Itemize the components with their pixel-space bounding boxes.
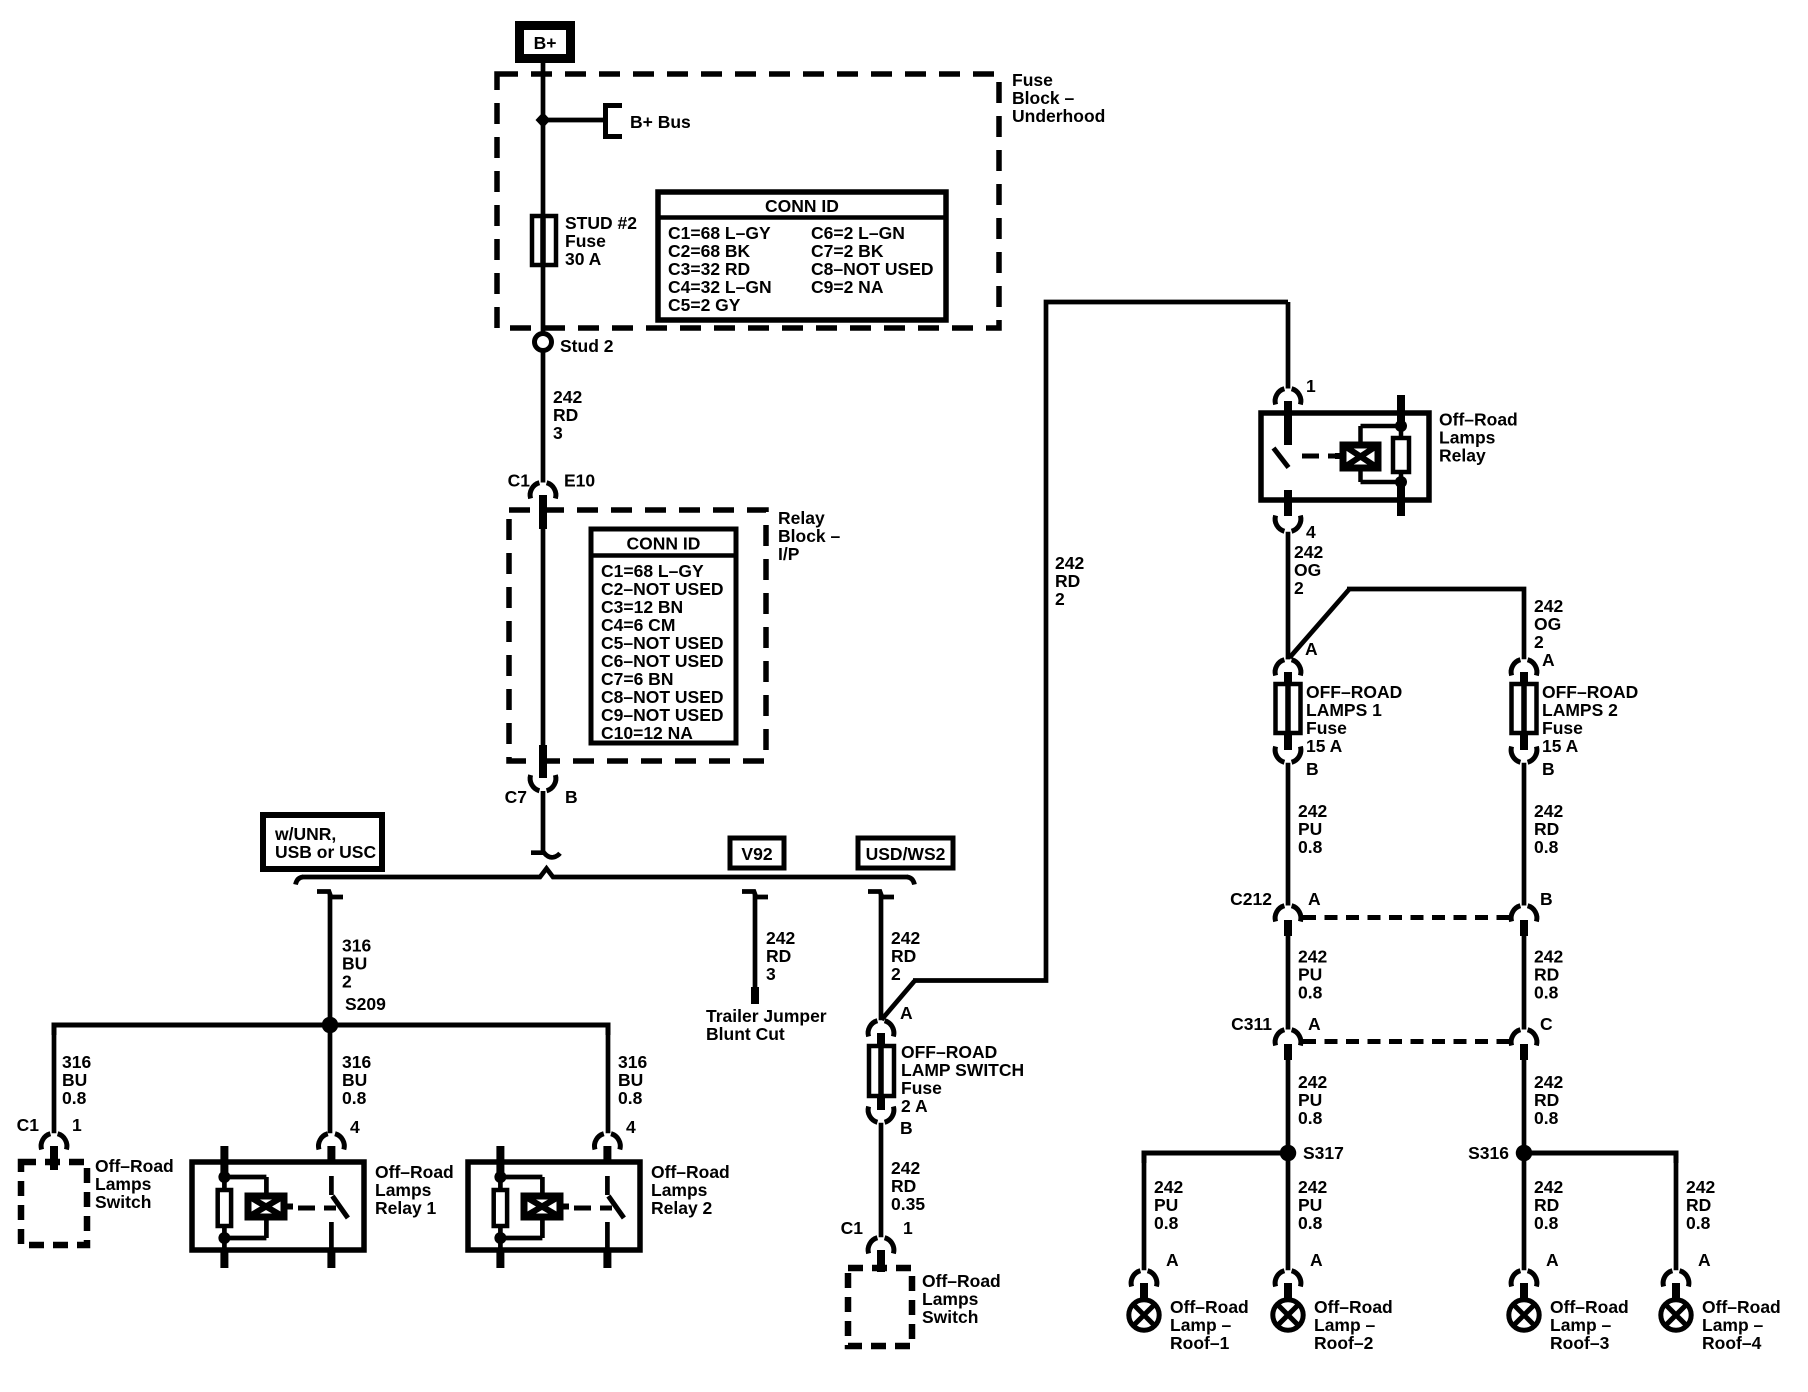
wire branch to lamps 2 fuse [1290,589,1564,659]
svg-text:C1: C1 [508,471,531,491]
svg-text:C1=68 L–GY: C1=68 L–GY [668,223,771,243]
svg-text:RD: RD [891,946,916,966]
connector B (lamp switch fuse) [868,1096,913,1138]
wire 242 RD 0.8 to lamp roof-3 [1524,1153,1563,1270]
svg-text:LAMPS 2: LAMPS 2 [1542,700,1618,720]
svg-text:Roof–1: Roof–1 [1170,1333,1230,1353]
wire 242 PU 0.8 (C311 to S317) [1288,1059,1327,1153]
svg-text:15 A: 15 A [1306,736,1343,756]
wire 242 RD 3 trailer jumper [742,892,795,989]
svg-text:15 A: 15 A [1542,736,1579,756]
connector C212 A-B [1230,889,1552,936]
svg-text:3: 3 [766,964,776,984]
svg-text:CONN ID: CONN ID [765,196,839,216]
connector C311 A-C [1231,1014,1553,1060]
svg-text:242: 242 [1534,596,1563,616]
svg-text:Lamps: Lamps [1439,428,1496,448]
svg-text:C311: C311 [1231,1014,1272,1034]
svg-text:BU: BU [618,1070,643,1090]
wire 316 BU 0.8 (middle to relay 1) [330,1025,371,1133]
wire 242 RD 3 (stud2 to C1/E10) [543,350,582,483]
svg-text:C3=32 RD: C3=32 RD [668,259,750,279]
svg-text:242: 242 [891,1158,920,1178]
svg-text:Lamps: Lamps [95,1174,152,1194]
svg-text:C7=2 BK: C7=2 BK [811,241,884,261]
svg-text:A: A [1166,1250,1179,1270]
svg-text:V92: V92 [741,844,772,864]
svg-text:4: 4 [1306,522,1316,542]
wire 242 RD 0.8 (C311 to S316) [1524,1059,1563,1153]
svg-text:C2=68 BK: C2=68 BK [668,241,751,261]
svg-text:C1: C1 [17,1115,40,1135]
svg-text:S209: S209 [345,994,386,1014]
svg-text:C9–NOT USED: C9–NOT USED [601,705,724,725]
svg-text:C5–NOT USED: C5–NOT USED [601,633,724,653]
connector A (off-road lamp roof-4) [1663,1250,1711,1287]
svg-text:LAMPS 1: LAMPS 1 [1306,700,1382,720]
svg-text:242: 242 [553,387,582,407]
svg-text:0.8: 0.8 [1154,1213,1179,1233]
option tag w/UNR USB or USC [263,815,382,869]
wire 316 BU 0.8 (right to relay 2) [608,1025,647,1133]
wire 242 PU 0.8 to lamp roof-1 [1144,1153,1183,1270]
conn id table (relay block I/P) [591,529,736,743]
connector A (lamps 2 fuse) [1511,650,1555,684]
svg-text:A: A [1308,1014,1321,1034]
connector pin 4 relay 2 [595,1117,636,1176]
svg-text:B: B [1542,759,1555,779]
svg-text:242: 242 [1298,947,1327,967]
svg-text:Lamp –: Lamp – [1550,1315,1612,1335]
svg-text:C2–NOT USED: C2–NOT USED [601,579,724,599]
svg-text:316: 316 [618,1052,647,1072]
svg-text:1: 1 [72,1115,82,1135]
svg-text:USB or USC: USB or USC [275,842,376,862]
wire 242 RD 2 feed from relay (long run) [882,302,1289,1020]
wire 316 BU 0.8 (left to lamps switch) [54,1025,91,1133]
wire 316 BU 2 (bus to S209) [317,892,371,1026]
svg-text:PU: PU [1154,1195,1178,1215]
svg-text:C4=32 L–GN: C4=32 L–GN [668,277,772,297]
wire B+ feed [541,63,546,216]
lamp: off-road lamp roof-3 [1509,1283,1629,1353]
svg-text:A: A [1310,1250,1323,1270]
svg-text:PU: PU [1298,819,1322,839]
connector C1 E10 [508,471,596,530]
connector pin 4 (off-road lamps relay) [1275,500,1316,542]
node S209 splice [54,994,608,1035]
svg-text:Relay: Relay [1439,446,1486,466]
connector C7 B [505,745,578,807]
svg-text:Fuse: Fuse [1012,70,1053,90]
connector A (off-road lamp roof-2) [1275,1250,1323,1287]
svg-text:RD: RD [1534,965,1559,985]
wire 242 PU 0.8 (C212 to C311) [1288,936,1327,1030]
svg-text:Fuse: Fuse [901,1078,942,1098]
svg-text:Off–Road: Off–Road [1314,1297,1393,1317]
svg-text:2: 2 [1055,589,1065,609]
svg-text:Off–Road: Off–Road [1439,410,1518,430]
svg-text:PU: PU [1298,965,1322,985]
svg-text:Lamps: Lamps [375,1180,432,1200]
relay block I/P enclosure (dashed) [509,508,841,761]
svg-text:242: 242 [1055,553,1084,573]
wire 242 RD 0.8 (fuse2 to C212) [1524,763,1563,906]
svg-text:C1: C1 [841,1218,864,1238]
option tag USD/WS2 [858,838,953,868]
svg-text:C1=68 L–GY: C1=68 L–GY [601,561,704,581]
svg-text:E10: E10 [564,471,595,491]
svg-text:B: B [1540,889,1553,909]
svg-text:4: 4 [626,1117,636,1137]
svg-text:RD: RD [891,1176,916,1196]
connector B (lamps 2 fuse) [1511,733,1555,779]
connector pin 1 (off-road lamps relay) [1275,376,1316,413]
svg-text:1: 1 [1306,376,1316,396]
svg-text:0.8: 0.8 [1534,837,1559,857]
svg-text:Off–Road: Off–Road [375,1162,454,1182]
connector A (off-road lamp roof-3) [1511,1250,1559,1287]
svg-text:A: A [900,1003,913,1023]
node B+ bus tap [536,103,692,139]
svg-text:0.8: 0.8 [1534,983,1559,1003]
svg-text:STUD #2: STUD #2 [565,213,637,233]
lamp: off-road lamp roof-2 [1273,1283,1393,1353]
off-road lamps switch (dashed outline) [21,1156,174,1245]
lamp: off-road lamp roof-1 [1129,1283,1249,1353]
svg-text:C5=2 GY: C5=2 GY [668,295,741,315]
wire inside relay block [541,529,546,748]
svg-text:RD: RD [553,405,578,425]
wire fuse to stud 2 [541,265,546,334]
svg-text:242: 242 [1298,801,1327,821]
svg-text:Fuse: Fuse [565,231,606,251]
svg-text:Off–Road: Off–Road [922,1271,1001,1291]
svg-text:RD: RD [1534,819,1559,839]
wire 242 PU 0.8 (fuse1 to C212) [1288,763,1327,906]
option tag V92 [730,838,784,868]
svg-text:A: A [1698,1250,1711,1270]
connector pin 4 relay 1 [319,1117,360,1176]
svg-text:0.8: 0.8 [62,1088,87,1108]
svg-text:PU: PU [1298,1090,1322,1110]
svg-text:OG: OG [1294,560,1321,580]
svg-text:0.8: 0.8 [1534,1213,1559,1233]
svg-text:0.35: 0.35 [891,1194,925,1214]
svg-text:B+ Bus: B+ Bus [630,112,691,132]
svg-text:CONN ID: CONN ID [627,534,701,554]
svg-text:0.8: 0.8 [1298,1213,1323,1233]
svg-text:Roof–4: Roof–4 [1702,1333,1762,1353]
svg-text:Relay 1: Relay 1 [375,1198,437,1218]
svg-text:LAMP SWITCH: LAMP SWITCH [901,1060,1024,1080]
svg-text:B: B [1306,759,1319,779]
svg-text:B: B [565,787,578,807]
relay: off-road lamps relay 1 [192,1146,454,1268]
wire 242 PU 0.8 to lamp roof-2 [1288,1153,1327,1270]
svg-text:PU: PU [1298,1195,1322,1215]
svg-text:242: 242 [1534,1072,1563,1092]
svg-text:242: 242 [1534,1177,1563,1197]
svg-text:2 A: 2 A [901,1096,928,1116]
svg-text:I/P: I/P [778,544,800,564]
svg-text:B+: B+ [534,33,557,53]
wire 242 RD 0.8 to lamp roof-4 [1676,1153,1715,1270]
svg-text:Lamp –: Lamp – [1702,1315,1764,1335]
trailer jumper blunt cut [706,987,827,1044]
wire 242 OG 2 (relay to fuses) [1288,532,1323,660]
svg-text:Lamp –: Lamp – [1170,1315,1232,1335]
svg-text:242: 242 [1686,1177,1715,1197]
svg-text:B: B [900,1118,913,1138]
connector A (lamps 1 fuse) [1275,639,1318,684]
svg-text:OFF–ROAD: OFF–ROAD [1306,682,1402,702]
connector C1 pin 1 (lamps switch bottom) [841,1218,913,1272]
svg-text:0.8: 0.8 [618,1088,643,1108]
svg-text:Blunt Cut: Blunt Cut [706,1024,785,1044]
svg-text:A: A [1308,889,1321,909]
wire 242 RD 0.8 (C212 to C311) [1524,936,1563,1030]
svg-text:C4=6 CM: C4=6 CM [601,615,675,635]
svg-text:Off–Road: Off–Road [1170,1297,1249,1317]
svg-text:30 A: 30 A [565,249,602,269]
svg-text:S317: S317 [1303,1143,1344,1163]
svg-text:2: 2 [1294,578,1304,598]
fuse block underhood enclosure (dashed) [497,70,1105,328]
svg-text:w/UNR,: w/UNR, [274,824,336,844]
svg-text:0.8: 0.8 [1686,1213,1711,1233]
wire 242 RD 2 (bus to lamp switch fuse) [868,892,920,1021]
fuse STUD #2 30A [532,213,637,269]
svg-text:Relay: Relay [778,508,825,528]
svg-text:242: 242 [766,928,795,948]
svg-text:Switch: Switch [95,1192,151,1212]
connector C1 pin 1 (lamps switch) [17,1115,82,1170]
svg-text:Lamp –: Lamp – [1314,1315,1376,1335]
svg-text:3: 3 [553,423,563,443]
svg-text:0.8: 0.8 [1298,983,1323,1003]
svg-text:OFF–ROAD: OFF–ROAD [901,1042,997,1062]
svg-text:316: 316 [342,1052,371,1072]
svg-text:Block –: Block – [778,526,841,546]
conn id table (fuse block underhood) [658,192,946,320]
svg-text:2: 2 [342,972,352,992]
node S316 splice [1468,1143,1676,1163]
svg-text:0.8: 0.8 [1534,1108,1559,1128]
svg-text:0.8: 0.8 [342,1088,367,1108]
svg-text:Roof–2: Roof–2 [1314,1333,1374,1353]
svg-text:Fuse: Fuse [1542,718,1583,738]
svg-text:Off–Road: Off–Road [1550,1297,1629,1317]
svg-text:A: A [1305,639,1318,659]
option bus bar [296,869,915,885]
wire 242 RD 0.35 [881,1123,925,1237]
svg-text:USD/WS2: USD/WS2 [866,844,946,864]
svg-text:BU: BU [342,954,367,974]
svg-text:242: 242 [1298,1072,1327,1092]
svg-text:242: 242 [1154,1177,1183,1197]
svg-text:C7=6 BN: C7=6 BN [601,669,673,689]
svg-text:Relay 2: Relay 2 [651,1198,713,1218]
svg-text:2: 2 [1534,632,1544,652]
svg-text:C212: C212 [1230,889,1272,909]
svg-text:Block –: Block – [1012,88,1075,108]
svg-text:C6–NOT USED: C6–NOT USED [601,651,724,671]
off-road lamps switch bottom (dashed outline) [848,1268,1001,1346]
svg-text:Roof–3: Roof–3 [1550,1333,1610,1353]
wire to relay pin 1 [1286,302,1291,389]
relay: off-road lamps relay 2 [468,1146,730,1268]
svg-text:C10=12 NA: C10=12 NA [601,723,693,743]
connector B (lamps 1 fuse) [1275,733,1319,779]
lamp: off-road lamp roof-4 [1661,1283,1781,1353]
svg-text:RD: RD [1534,1090,1559,1110]
terminal Stud 2 [535,334,614,357]
svg-text:C: C [1540,1014,1553,1034]
svg-text:RD: RD [1055,571,1080,591]
svg-text:RD: RD [1686,1195,1711,1215]
connector A (off-road lamp roof-1) [1131,1250,1179,1287]
svg-text:242: 242 [1534,947,1563,967]
svg-text:C3=12 BN: C3=12 BN [601,597,683,617]
svg-text:0.8: 0.8 [1298,1108,1323,1128]
svg-text:4: 4 [350,1117,360,1137]
svg-text:S316: S316 [1468,1143,1509,1163]
connector A (lamp switch fuse) [868,1003,913,1046]
svg-text:242: 242 [1298,1177,1327,1197]
svg-text:Switch: Switch [922,1307,978,1327]
svg-text:242: 242 [1294,542,1323,562]
svg-text:RD: RD [1534,1195,1559,1215]
svg-text:RD: RD [766,946,791,966]
svg-text:242: 242 [1534,801,1563,821]
fuse OFF-ROAD LAMP SWITCH 2A [869,1042,1024,1116]
svg-text:C8–NOT USED: C8–NOT USED [601,687,724,707]
svg-text:Trailer Jumper: Trailer Jumper [706,1006,827,1026]
svg-text:Lamps: Lamps [922,1289,979,1309]
svg-text:A: A [1546,1250,1559,1270]
svg-text:242: 242 [891,928,920,948]
svg-text:Stud 2: Stud 2 [560,336,614,356]
svg-text:Underhood: Underhood [1012,106,1105,126]
svg-text:Off–Road: Off–Road [95,1156,174,1176]
svg-text:BU: BU [62,1070,87,1090]
svg-text:Fuse: Fuse [1306,718,1347,738]
svg-text:BU: BU [342,1070,367,1090]
svg-text:Off–Road: Off–Road [1702,1297,1781,1317]
node S317 splice [1144,1143,1344,1163]
fuse OFF-ROAD LAMPS 1 15A [1276,682,1403,756]
svg-text:1: 1 [903,1218,913,1238]
svg-text:OG: OG [1534,614,1561,634]
battery positive terminal B+ [520,26,571,59]
svg-text:316: 316 [62,1052,91,1072]
relay: off-road lamps relay [1261,395,1518,516]
svg-text:OFF–ROAD: OFF–ROAD [1542,682,1638,702]
svg-text:Off–Road: Off–Road [651,1162,730,1182]
svg-text:A: A [1542,650,1555,670]
svg-text:0.8: 0.8 [1298,837,1323,857]
fuse OFF-ROAD LAMPS 2 15A [1512,682,1639,756]
svg-text:C7: C7 [505,787,527,807]
wire C7 to option bus with end hook [531,791,560,857]
svg-text:Lamps: Lamps [651,1180,708,1200]
svg-text:C8–NOT USED: C8–NOT USED [811,259,934,279]
svg-text:C9=2 NA: C9=2 NA [811,277,884,297]
svg-text:C6=2 L–GN: C6=2 L–GN [811,223,905,243]
svg-text:316: 316 [342,936,371,956]
svg-text:2: 2 [891,964,901,984]
